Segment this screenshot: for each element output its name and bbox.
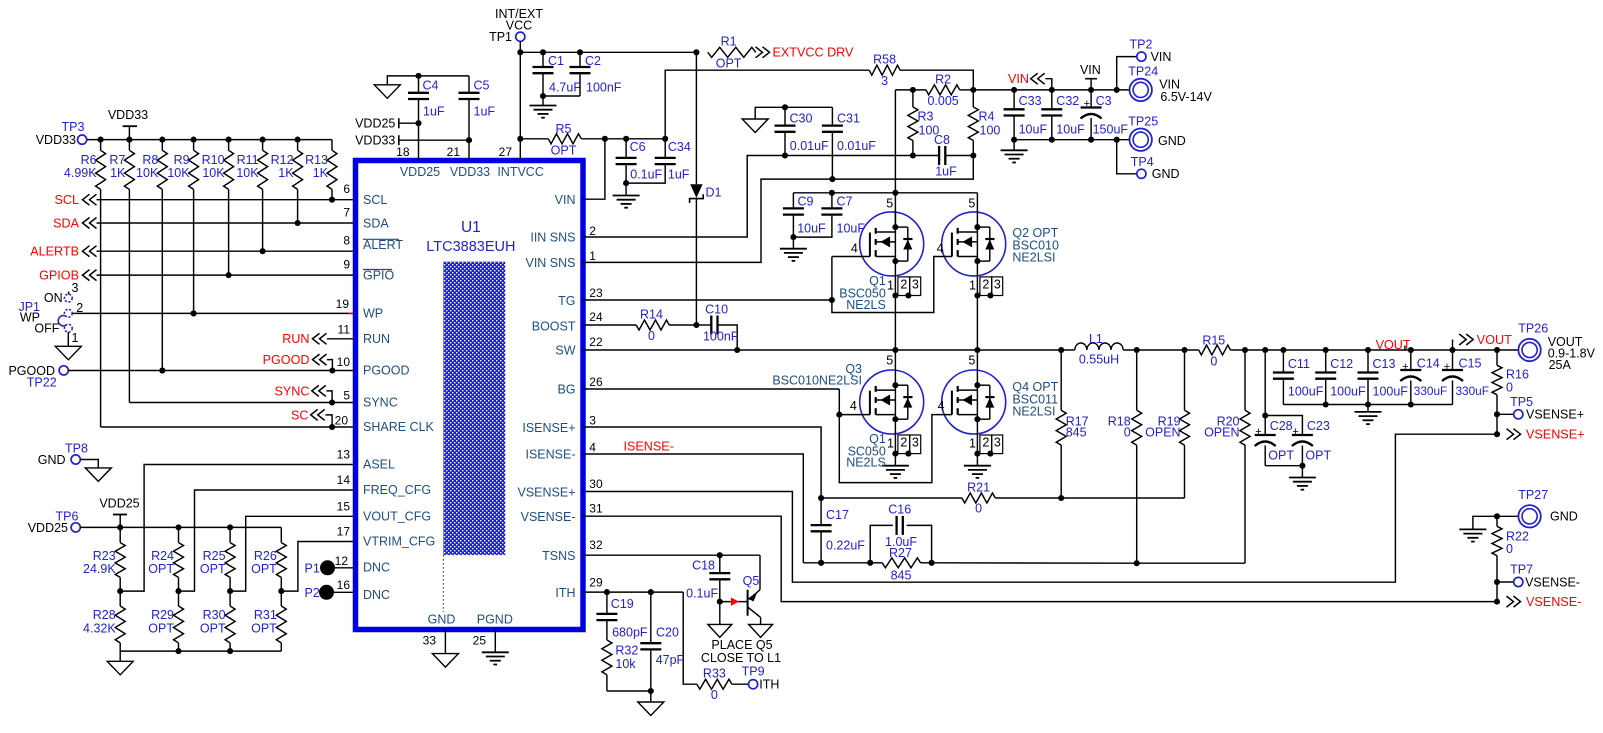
svg-text:SDA: SDA — [53, 216, 79, 230]
svg-text:SC: SC — [291, 408, 309, 422]
test point TP4 GND — [1117, 140, 1137, 174]
inductor L1 0.55uH — [1075, 343, 1123, 350]
svg-text:25A: 25A — [1549, 358, 1572, 372]
power flag VDD25 — [113, 514, 127, 516]
svg-text:TP3: TP3 — [62, 120, 85, 134]
svg-text:RUN: RUN — [282, 332, 309, 346]
svg-text:0: 0 — [1506, 542, 1513, 556]
svg-text:4: 4 — [851, 241, 858, 255]
svg-text:VDD33: VDD33 — [108, 108, 148, 122]
resistor R18 0 — [1136, 350, 1138, 410]
capacitor C18 0.1uF — [719, 555, 721, 573]
wire TG gate bus — [583, 299, 832, 301]
svg-text:TSNS: TSNS — [542, 549, 575, 563]
svg-text:SCL: SCL — [55, 193, 80, 207]
svg-text:R1: R1 — [721, 35, 737, 49]
svg-text:GND: GND — [1158, 134, 1186, 148]
wire SW — [583, 349, 1075, 351]
svg-text:OFF: OFF — [34, 322, 59, 336]
svg-text:10K: 10K — [136, 166, 159, 180]
svg-text:TP4: TP4 — [1131, 155, 1154, 169]
svg-text:PGOOD: PGOOD — [363, 364, 410, 378]
capacitor C16 1.0uF — [870, 525, 893, 562]
svg-text:R8: R8 — [142, 153, 158, 167]
svg-text:OPT: OPT — [148, 621, 174, 635]
svg-text:10k: 10k — [615, 657, 636, 671]
ground — [1367, 405, 1369, 412]
svg-text:DNC: DNC — [363, 561, 390, 575]
svg-text:EXTVCC DRV: EXTVCC DRV — [773, 46, 855, 60]
capacitor C6 0.1uF — [605, 138, 626, 140]
svg-text:OPT: OPT — [148, 562, 174, 576]
test point TP3 — [78, 135, 87, 144]
svg-text:1: 1 — [72, 331, 79, 345]
svg-text:VDD33: VDD33 — [450, 165, 490, 179]
svg-text:OPT: OPT — [251, 562, 277, 576]
svg-text:C11: C11 — [1288, 357, 1310, 371]
ground — [882, 465, 909, 467]
svg-text:2: 2 — [982, 436, 989, 450]
svg-text:U1: U1 — [461, 219, 481, 236]
svg-text:0.55uH: 0.55uH — [1079, 353, 1119, 367]
resistor R21 0 — [962, 493, 995, 503]
capacitor C14 330uF — [1410, 350, 1412, 370]
ground — [749, 624, 773, 637]
svg-text:0: 0 — [975, 501, 982, 515]
svg-text:C33: C33 — [1019, 94, 1042, 108]
svg-text:1uF: 1uF — [474, 105, 496, 119]
svg-text:0: 0 — [711, 688, 718, 702]
wire ITH gnd — [607, 690, 651, 692]
svg-text:OPT: OPT — [200, 621, 226, 635]
svg-text:SDA: SDA — [363, 216, 389, 230]
svg-text:+: + — [1255, 426, 1261, 438]
capacitor C20 47pF — [650, 592, 652, 643]
svg-text:16: 16 — [337, 578, 351, 592]
svg-text:1: 1 — [969, 279, 976, 293]
svg-text:25: 25 — [473, 634, 487, 648]
ground — [387, 76, 418, 85]
capacitor C31 0.01uF — [785, 106, 832, 108]
svg-text:4.32K: 4.32K — [83, 621, 116, 635]
svg-text:VSENSE-: VSENSE- — [521, 510, 576, 524]
capacitor C10 100nF — [696, 324, 711, 326]
svg-text:C28: C28 — [1270, 419, 1293, 433]
capacitor C34 1uF — [626, 138, 665, 140]
svg-text:VIN: VIN — [1151, 50, 1172, 64]
capacitor C33 10uF — [1013, 90, 1015, 109]
wire INTVCC top rail — [520, 51, 696, 53]
svg-text:OPT: OPT — [1305, 448, 1331, 462]
svg-text:ISENSE-: ISENSE- — [525, 447, 575, 461]
capacitor C9 10uF — [792, 193, 794, 209]
svg-text:R29: R29 — [151, 608, 174, 622]
svg-text:21: 21 — [447, 145, 461, 159]
svg-text:C7: C7 — [837, 195, 853, 209]
svg-text:31: 31 — [589, 502, 603, 516]
svg-text:INTVCC: INTVCC — [497, 165, 544, 179]
resistor R9 10K — [191, 137, 197, 143]
wire VSENSE+ — [583, 434, 1497, 582]
svg-text:1K: 1K — [313, 166, 329, 180]
wire L1 to R15 — [1123, 349, 1199, 351]
svg-text:10uF: 10uF — [797, 221, 826, 235]
wire ITH — [583, 591, 683, 593]
capacitor C23 OPT — [1265, 416, 1302, 435]
wire SYNC — [129, 402, 355, 404]
resistor R4 100 — [972, 90, 974, 107]
svg-text:0.01uF: 0.01uF — [790, 139, 829, 153]
svg-text:100uF: 100uF — [1330, 385, 1366, 399]
ground — [755, 107, 785, 119]
svg-text:OPT: OPT — [1268, 448, 1294, 462]
svg-text:TP9: TP9 — [742, 665, 765, 679]
transistor Q5 — [759, 555, 761, 590]
svg-text:BOOST: BOOST — [532, 319, 576, 333]
net VOUT arrow — [1452, 340, 1454, 351]
svg-text:GND: GND — [428, 613, 456, 627]
svg-text:ISENSE+: ISENSE+ — [522, 421, 575, 435]
resistor R14 0 — [583, 324, 636, 326]
svg-text:1K: 1K — [110, 166, 126, 180]
svg-text:C15: C15 — [1459, 356, 1482, 370]
svg-text:GND: GND — [38, 453, 66, 467]
svg-text:SYNC: SYNC — [275, 384, 310, 398]
svg-text:3: 3 — [72, 281, 79, 295]
wire ISENSE+ row — [821, 497, 962, 499]
resistor R26 OPT — [280, 527, 282, 542]
wire VOUT rail — [1230, 349, 1518, 351]
svg-text:C31: C31 — [837, 111, 860, 125]
svg-text:TG: TG — [558, 294, 575, 308]
svg-text:SYNC: SYNC — [363, 396, 398, 410]
wire ISENSE- row — [803, 562, 870, 564]
svg-text:330uF: 330uF — [1456, 384, 1489, 398]
svg-text:VIN: VIN — [1008, 72, 1029, 86]
test point TP7 VSENSE- — [1497, 581, 1514, 583]
svg-text:10uF: 10uF — [1019, 123, 1048, 137]
svg-text:NE2LS: NE2LS — [846, 298, 886, 312]
svg-text:NE2LSI: NE2LSI — [1012, 404, 1055, 418]
svg-text:R15: R15 — [1202, 333, 1225, 347]
svg-text:845: 845 — [891, 569, 912, 583]
svg-text:24: 24 — [589, 310, 603, 324]
svg-text:OPT: OPT — [716, 57, 742, 71]
svg-text:R2: R2 — [935, 72, 951, 86]
svg-text:TP26: TP26 — [1518, 321, 1548, 335]
svg-text:ITH: ITH — [759, 678, 779, 692]
svg-text:GND: GND — [1152, 167, 1180, 181]
svg-text:1: 1 — [887, 437, 894, 451]
svg-text:14: 14 — [337, 473, 351, 487]
svg-text:OPT: OPT — [200, 562, 226, 576]
svg-text:ITH: ITH — [555, 586, 575, 600]
test point TP26 VOUT — [1518, 339, 1540, 361]
svg-text:R26: R26 — [254, 549, 277, 563]
svg-text:C17: C17 — [826, 508, 849, 522]
svg-text:13: 13 — [337, 448, 351, 462]
wire BG gate bus — [583, 388, 839, 390]
svg-text:10: 10 — [337, 355, 351, 369]
svg-text:1K: 1K — [278, 166, 294, 180]
IC U1 LTC3883EUH — [356, 161, 584, 630]
capacitor C4 1uF — [415, 73, 421, 79]
svg-text:R4: R4 — [979, 110, 995, 124]
svg-text:TP25: TP25 — [1128, 114, 1158, 128]
svg-text:4.7uF: 4.7uF — [549, 81, 581, 95]
svg-text:32: 32 — [589, 538, 603, 552]
resistor R5 OPT — [520, 138, 548, 140]
svg-text:C13: C13 — [1373, 357, 1396, 371]
svg-text:VIN SNS: VIN SNS — [525, 256, 575, 270]
svg-text:TP24: TP24 — [1128, 65, 1158, 79]
power flag VDD33 — [123, 125, 137, 127]
svg-text:24.9K: 24.9K — [83, 562, 116, 576]
ground — [792, 237, 794, 249]
svg-text:5: 5 — [886, 354, 893, 368]
svg-text:C12: C12 — [1330, 357, 1353, 371]
capacitor C2 100nF — [579, 52, 581, 67]
svg-text:330uF: 330uF — [1414, 384, 1447, 398]
svg-text:29: 29 — [589, 576, 603, 590]
svg-text:VOUT: VOUT — [1477, 333, 1512, 347]
svg-text:R13: R13 — [305, 153, 328, 167]
wire output gnd rail — [1283, 404, 1452, 406]
svg-text:18: 18 — [396, 145, 410, 159]
svg-text:6.5V-14V: 6.5V-14V — [1160, 90, 1212, 104]
wire R58 link — [665, 70, 869, 139]
svg-text:10uF: 10uF — [1056, 123, 1085, 137]
svg-text:FREQ_CFG: FREQ_CFG — [363, 483, 431, 497]
svg-text:TP1: TP1 — [489, 30, 512, 44]
svg-text:3: 3 — [994, 278, 1001, 292]
capacitor C32 10uF — [1051, 90, 1053, 109]
svg-text:BSC010NE2LSI: BSC010NE2LSI — [772, 374, 862, 388]
svg-text:VSENSE-: VSENSE- — [1526, 595, 1581, 609]
resistor R7 1K — [126, 137, 132, 143]
svg-text:4.99K: 4.99K — [64, 166, 97, 180]
svg-text:1uF: 1uF — [668, 167, 690, 181]
capacitor C7 10uF — [829, 190, 835, 196]
svg-text:1: 1 — [589, 249, 596, 263]
svg-text:VSENSE+: VSENSE+ — [517, 485, 575, 499]
svg-text:C2: C2 — [585, 54, 601, 68]
svg-text:D1: D1 — [706, 186, 722, 200]
pin 25 PGND — [494, 630, 496, 653]
svg-text:VDD33: VDD33 — [36, 133, 76, 147]
svg-text:R7: R7 — [109, 153, 125, 167]
svg-text:9: 9 — [343, 258, 350, 272]
svg-text:33: 33 — [423, 634, 437, 648]
ground — [1013, 140, 1015, 151]
svg-text:4: 4 — [937, 241, 944, 255]
svg-text:2: 2 — [900, 436, 907, 450]
svg-text:PLACE Q5: PLACE Q5 — [711, 638, 772, 652]
svg-text:C14: C14 — [1417, 356, 1440, 370]
test point TP24 VIN — [1130, 79, 1152, 101]
resistor R19 OPEN — [1184, 350, 1186, 410]
svg-text:NE2LSI: NE2LSI — [1012, 251, 1055, 265]
pin 33 GND — [444, 630, 446, 654]
svg-text:R31: R31 — [254, 608, 277, 622]
svg-text:ALERT: ALERT — [363, 238, 403, 252]
resistor R58 3 — [869, 65, 900, 75]
ground — [107, 661, 133, 675]
wire drain rail — [793, 192, 895, 194]
svg-text:L1: L1 — [1089, 332, 1103, 346]
svg-text:ISENSE-: ISENSE- — [624, 440, 674, 454]
svg-text:C1: C1 — [548, 54, 564, 68]
svg-text:3: 3 — [589, 414, 596, 428]
test point TP25 GND — [1130, 129, 1152, 151]
svg-text:0.1uF: 0.1uF — [686, 586, 718, 600]
svg-text:100uF: 100uF — [1373, 385, 1409, 399]
svg-text:SCL: SCL — [363, 193, 387, 207]
resistor R22 0 — [1496, 516, 1498, 526]
resistor R33 0 — [697, 679, 732, 689]
svg-text:0.005: 0.005 — [927, 94, 958, 108]
svg-text:WP: WP — [363, 306, 383, 320]
svg-text:SW: SW — [555, 344, 575, 358]
resistor R17 845 — [1060, 350, 1062, 410]
svg-text:7: 7 — [343, 206, 350, 220]
svg-text:R58: R58 — [873, 53, 896, 67]
wire IIN SNS — [583, 156, 913, 238]
svg-text:C20: C20 — [656, 626, 679, 640]
svg-text:DNC: DNC — [363, 588, 390, 602]
resistor R27 845 — [882, 558, 920, 568]
svg-text:100nF: 100nF — [703, 330, 739, 344]
svg-text:100nF: 100nF — [586, 81, 622, 95]
svg-text:3: 3 — [912, 436, 919, 450]
svg-text:C9: C9 — [798, 195, 814, 209]
svg-text:R24: R24 — [151, 549, 174, 563]
svg-text:+: + — [1292, 426, 1298, 438]
svg-text:2: 2 — [982, 278, 989, 292]
svg-text:845: 845 — [1066, 426, 1087, 440]
svg-text:0.22uF: 0.22uF — [826, 539, 865, 553]
svg-text:R11: R11 — [237, 153, 259, 167]
capacitor C30 0.01uF — [782, 104, 788, 110]
resistor R30 OPT — [229, 591, 231, 606]
svg-text:TP2: TP2 — [1130, 38, 1153, 52]
svg-text:OPEN: OPEN — [1204, 426, 1239, 440]
capacitor C11 100uF — [1282, 350, 1284, 373]
svg-text:R30: R30 — [203, 608, 226, 622]
svg-text:R6: R6 — [81, 153, 97, 167]
svg-text:R33: R33 — [703, 667, 726, 681]
svg-text:NE2LS: NE2LS — [846, 456, 886, 470]
svg-text:R12: R12 — [271, 153, 294, 167]
resistor R8 10K — [159, 137, 165, 143]
svg-text:10K: 10K — [236, 166, 259, 180]
resistor R28 4.32K — [119, 591, 121, 606]
svg-text:VDD25: VDD25 — [99, 497, 139, 511]
svg-text:1uF: 1uF — [423, 105, 445, 119]
svg-text:1: 1 — [887, 279, 894, 293]
resistor R25 OPT — [227, 524, 233, 530]
diode D1 — [695, 52, 697, 184]
svg-text:P2: P2 — [305, 586, 320, 600]
svg-text:P1: P1 — [305, 562, 320, 576]
svg-text:47pF: 47pF — [656, 653, 685, 667]
resistor R15 0 — [1199, 345, 1231, 355]
wire input gnd rail — [1014, 139, 1129, 141]
capacitor C28 OPT — [1264, 350, 1266, 416]
svg-text:VIN: VIN — [555, 193, 576, 207]
test point TP2 VIN — [1117, 57, 1137, 90]
svg-text:VOUT_CFG: VOUT_CFG — [363, 509, 431, 523]
svg-text:0: 0 — [1506, 380, 1513, 394]
svg-text:PGND: PGND — [477, 613, 513, 627]
svg-text:GPIO: GPIO — [363, 268, 395, 282]
resistor R13 1K — [331, 140, 333, 151]
svg-text:150uF: 150uF — [1093, 123, 1129, 137]
svg-text:ON: ON — [44, 291, 63, 305]
ground — [625, 183, 627, 195]
svg-text:C30: C30 — [790, 111, 813, 125]
svg-text:C10: C10 — [705, 303, 728, 317]
svg-text:TP8: TP8 — [65, 442, 88, 456]
svg-text:C19: C19 — [611, 597, 634, 611]
svg-text:5: 5 — [968, 197, 975, 211]
capacitor C19 680pF — [606, 592, 608, 614]
svg-text:VOUT: VOUT — [1376, 338, 1411, 352]
wire VOUT_CFG — [230, 516, 355, 591]
svg-text:4: 4 — [850, 399, 857, 413]
wire VIN rail — [973, 89, 1129, 91]
resistor R23 24.9K — [117, 524, 123, 530]
resistor R6 4.99K — [98, 137, 104, 143]
svg-text:R14: R14 — [640, 308, 663, 322]
svg-text:R5: R5 — [556, 122, 572, 136]
svg-text:VTRIM_CFG: VTRIM_CFG — [363, 535, 435, 549]
svg-text:0: 0 — [1210, 355, 1217, 369]
svg-text:C8: C8 — [934, 133, 950, 147]
svg-text:23: 23 — [589, 286, 603, 300]
net VSENSE- arrow — [1514, 596, 1521, 607]
wire VIN pin28 — [583, 139, 605, 199]
ground — [1301, 466, 1303, 478]
resistor R32 10k — [602, 640, 612, 675]
svg-text:OPT: OPT — [551, 144, 577, 158]
resistor R3 100 — [912, 90, 914, 107]
svg-text:PGOOD: PGOOD — [263, 353, 310, 367]
svg-text:30: 30 — [589, 477, 603, 491]
wire ISENSE- — [583, 454, 803, 563]
svg-text:1uF: 1uF — [935, 165, 957, 179]
resistor R31 OPT — [280, 591, 282, 606]
svg-text:SHARE CLK: SHARE CLK — [363, 420, 435, 434]
svg-text:VSENSE+: VSENSE+ — [1526, 428, 1584, 442]
svg-text:ASEL: ASEL — [363, 458, 395, 472]
resistor R24 OPT — [175, 524, 181, 530]
wire TSNS — [583, 554, 760, 556]
svg-text:C23: C23 — [1307, 419, 1330, 433]
svg-text:26: 26 — [589, 375, 603, 389]
svg-text:C6: C6 — [630, 140, 646, 154]
svg-text:3: 3 — [912, 278, 919, 292]
capacitor C8 1uF — [913, 155, 939, 157]
svg-text:2: 2 — [900, 278, 907, 292]
svg-text:3: 3 — [881, 74, 888, 88]
svg-text:VDD25: VDD25 — [355, 116, 395, 130]
wire WP — [72, 312, 355, 314]
resistor R11 10K — [260, 137, 266, 143]
svg-text:VDD25: VDD25 — [28, 521, 68, 535]
svg-text:1: 1 — [969, 437, 976, 451]
capacitor C17 0.22uF — [820, 498, 822, 525]
